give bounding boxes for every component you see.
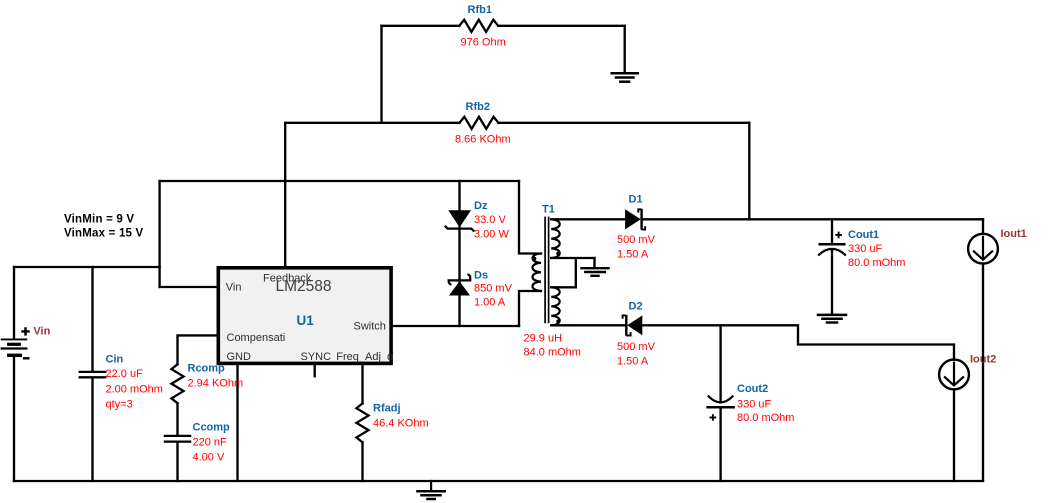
wire centre tap ground drop — [593, 258, 595, 267]
svg-text:Switch: Switch — [354, 321, 386, 333]
svg-text:Rfb1: Rfb1 — [468, 4, 492, 16]
current source Iout1 — [968, 234, 998, 264]
Cout2 plus sign — [710, 414, 717, 421]
capacitor Cin vertical bottom — [91, 378, 93, 481]
wire Cout1 branch top — [831, 219, 833, 243]
resistor Rcomp — [171, 364, 183, 403]
svg-text:33.0 V: 33.0 V — [474, 214, 506, 226]
Cout1 plus sign — [835, 232, 842, 239]
wire Cout2 to bottom rail — [719, 408, 721, 481]
wire feedback vertical to U1 — [284, 123, 286, 267]
svg-text:Ccomp: Ccomp — [193, 421, 231, 433]
svg-text:Cout1: Cout1 — [848, 229, 879, 241]
svg-text:LM2588: LM2588 — [276, 278, 332, 295]
capacitor Cin plates — [80, 372, 106, 377]
svg-text:29.9 uH: 29.9 uH — [524, 332, 563, 344]
capacitor Ccomp plates — [165, 436, 190, 442]
wire U1 GND pin to bottom rail — [236, 364, 238, 481]
wire Cout1 to ground — [831, 250, 833, 314]
wire U1 FreqAdj to Rfadj — [361, 364, 363, 403]
svg-text:Iout1: Iout1 — [1001, 228, 1027, 240]
wire D1 to output node — [643, 218, 983, 220]
svg-text:8.66 KOhm: 8.66 KOhm — [455, 133, 511, 145]
T1 primary dot — [532, 257, 536, 261]
wire Rfadj to bottom rail — [361, 442, 363, 481]
svg-text:Rfadj: Rfadj — [373, 402, 401, 414]
wire primary top vertical — [519, 181, 541, 254]
svg-text:Compensati: Compensati — [227, 332, 286, 344]
T1 secondary top dot — [556, 252, 560, 256]
wire snubber vertical (Dz/Ds branch) — [458, 181, 460, 326]
wire Vin rail top horizontal — [160, 180, 519, 182]
wire Vin rail vertical — [158, 181, 160, 287]
battery V1 wire bottom — [13, 357, 15, 481]
wire Rfb2 right lead — [498, 122, 749, 124]
wire Rfb2 right vertical to output node — [748, 123, 750, 220]
op-amp U1 LM2588 box — [218, 268, 391, 364]
wire Rfb1 right lead — [498, 25, 625, 27]
svg-text:4.00 V: 4.00 V — [193, 451, 225, 463]
resistor Rfb1 — [459, 20, 498, 32]
wire Iout1 top lead — [982, 219, 984, 234]
svg-text:84.0 mOhm: 84.0 mOhm — [524, 346, 581, 358]
diode Dz zener — [445, 210, 474, 231]
svg-text:VinMax = 15 V: VinMax = 15 V — [64, 228, 144, 240]
svg-text:850 mV: 850 mV — [474, 282, 513, 294]
T1 secondary bottom winding — [551, 287, 560, 325]
diode D1 schottky — [625, 209, 645, 230]
svg-text:T1: T1 — [542, 203, 555, 215]
wire Switch pin lead — [392, 325, 519, 327]
wire Cout2 branch top — [719, 325, 721, 401]
wire secondary top to D1 — [551, 218, 625, 220]
svg-text:22.0 uF: 22.0 uF — [106, 368, 144, 380]
svg-text:Cout2: Cout2 — [737, 383, 768, 395]
svg-text:500 mV: 500 mV — [617, 341, 656, 353]
current source Iout2 — [939, 360, 969, 390]
svg-text:330 uF: 330 uF — [737, 398, 772, 410]
wire D2 to Iout2 step — [642, 325, 954, 359]
ground at centre tap — [582, 268, 609, 276]
svg-text:3.00 W: 3.00 W — [474, 228, 509, 240]
svg-text:Vin: Vin — [226, 282, 242, 294]
wire Rfb1 left lead — [382, 25, 460, 27]
ground at bottom rail — [418, 481, 445, 499]
wire Iout1 bottom lead — [982, 264, 984, 481]
svg-text:Rcomp: Rcomp — [188, 362, 226, 374]
wire primary bottom vertical — [519, 291, 541, 326]
svg-text:330 uF: 330 uF — [848, 243, 883, 255]
wire Rfb2 left lead — [285, 122, 459, 124]
svg-text:Rfb2: Rfb2 — [466, 101, 490, 113]
transformer T1 — [532, 217, 560, 326]
svg-text:qty=3: qty=3 — [106, 398, 133, 410]
svg-text:Dz: Dz — [474, 200, 488, 212]
wire Compensation lead — [178, 335, 218, 364]
wire bottom rail — [14, 480, 983, 482]
svg-text:220 nF: 220 nF — [193, 436, 228, 448]
capacitor Cout2 plates — [709, 396, 733, 402]
wire secondary centre tap — [551, 258, 594, 287]
capacitor Cout1 plates — [820, 243, 845, 246]
svg-text:1.50 A: 1.50 A — [617, 248, 649, 260]
diode D2 schottky — [623, 315, 643, 336]
T1 secondary top winding — [551, 219, 560, 258]
svg-text:Ds: Ds — [474, 269, 488, 281]
svg-text:Cin: Cin — [106, 353, 124, 365]
svg-text:1.00 A: 1.00 A — [474, 297, 506, 309]
svg-text:80.0 mOhm: 80.0 mOhm — [848, 257, 905, 269]
diode Ds schottky — [449, 275, 471, 296]
wire secondary bottom to D2 — [551, 324, 625, 326]
svg-text:D2: D2 — [629, 300, 643, 312]
svg-text:Freq_Adj_o: Freq_Adj_o — [336, 351, 393, 363]
svg-text:Vin: Vin — [33, 326, 50, 338]
T1 core — [544, 217, 546, 324]
battery plus sign — [21, 327, 29, 335]
wire Iout2 bottom lead — [953, 389, 955, 481]
wire Ccomp to bottom rail — [176, 443, 178, 481]
svg-text:1.50 A: 1.50 A — [617, 355, 649, 367]
wire Vin pin lead — [160, 286, 218, 288]
svg-text:U1: U1 — [297, 313, 315, 328]
wire Rfb1 left vertical to Rfb2 net — [380, 26, 382, 123]
capacitor Cin vertical top — [91, 267, 93, 371]
svg-text:Iout2: Iout2 — [970, 353, 996, 365]
wire battery top to Vin rail — [14, 266, 160, 268]
resistor Rfadj — [356, 403, 368, 442]
svg-text:2.94 KOhm: 2.94 KOhm — [188, 377, 244, 389]
T1 secondary bottom dot — [556, 319, 560, 323]
battery V1 Vin wire top — [13, 267, 15, 338]
svg-text:GND: GND — [227, 351, 252, 363]
resistor Rfb2 — [460, 117, 499, 129]
wire Rfb1 right vertical to ground — [624, 26, 626, 72]
svg-text:2.00 mOhm: 2.00 mOhm — [106, 383, 163, 395]
ground at Cout1 — [818, 315, 846, 323]
svg-text:VinMin = 9 V: VinMin = 9 V — [64, 214, 134, 226]
svg-text:D1: D1 — [629, 193, 643, 205]
svg-text:80.0 mOhm: 80.0 mOhm — [737, 412, 794, 424]
T1 primary winding — [533, 254, 542, 292]
svg-text:500 mV: 500 mV — [617, 234, 656, 246]
battery minus sign — [23, 357, 30, 359]
wire Rcomp to Ccomp — [176, 403, 178, 435]
svg-text:976 Ohm: 976 Ohm — [461, 36, 506, 48]
ground at Rfb1 right — [612, 73, 638, 82]
battery V1 plates — [2, 339, 27, 355]
svg-text:SYNC: SYNC — [301, 351, 332, 363]
svg-text:46.4 KOhm: 46.4 KOhm — [373, 417, 429, 429]
wire U1 SYNC stub — [314, 364, 316, 376]
